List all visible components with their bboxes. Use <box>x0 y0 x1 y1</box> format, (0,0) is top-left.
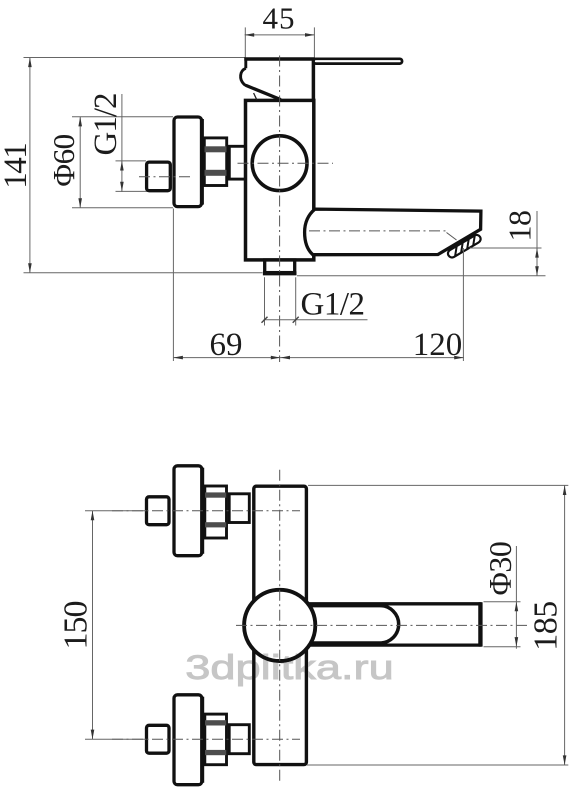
front view: top inlet stub <box>229 494 249 523</box>
front view: handle lever pill <box>280 606 399 643</box>
side view: horizontal center line through cartridge <box>238 162 334 164</box>
side view: dimension G1/2 bottom extension left <box>264 277 266 325</box>
side view: dimension 45 extension line right <box>313 27 315 58</box>
front view: vertical center line <box>279 470 281 782</box>
front view: dimension Phi30 extension bottom <box>484 646 521 648</box>
side view: spout center line <box>309 230 446 232</box>
side view: dimension line Phi60 <box>79 117 81 208</box>
side view: faucet body <box>246 100 314 260</box>
svg-text:G1/2: G1/2 <box>88 94 124 156</box>
side view: dimension 141 extension line bottom <box>24 272 263 274</box>
side view: dimension 141 extension line top <box>24 57 246 59</box>
side view: dimension line 141 <box>29 58 31 273</box>
side view: dimension G1/2 bottom shelf line <box>264 319 368 321</box>
front view: dimension line 185 <box>564 485 566 765</box>
side view: extension line for 120 right <box>462 248 464 361</box>
svg-text:Φ30: Φ30 <box>482 542 518 596</box>
side view: cartridge circle <box>252 136 307 191</box>
side view: handle cap left edge <box>244 58 247 69</box>
side view: dimension 45 extension line left <box>244 27 246 57</box>
side view: wall nipple center line <box>139 176 192 178</box>
svg-text:45: 45 <box>263 1 296 36</box>
front view: dimension 150 extension bottom <box>85 738 146 740</box>
front view: bottom connection center line <box>112 738 300 740</box>
side view: dimension line 18 <box>536 211 538 276</box>
svg-text:Φ60: Φ60 <box>46 134 81 186</box>
side view: handle joint tick <box>254 93 257 100</box>
side view: dimension G1/2 bottom extension right <box>295 277 297 325</box>
side view: dimension 18 extension line top <box>470 247 542 249</box>
side view: dimension Phi60 extension line bottom <box>72 207 173 209</box>
svg-text:141: 141 <box>0 144 34 189</box>
side view: dimension line G1/2 top <box>121 94 123 192</box>
front view: bottom wall nipple square <box>147 725 170 753</box>
front view: top connection center line <box>112 510 300 512</box>
side view: dimension line 45 <box>245 34 315 36</box>
svg-text:18: 18 <box>502 211 538 242</box>
front view: bottom inlet stub <box>229 725 249 754</box>
side view: vertical center line <box>279 56 281 363</box>
front view: handle base circle <box>244 590 315 661</box>
svg-text:185: 185 <box>528 601 565 651</box>
front view: dimension 150 extension top <box>85 510 146 512</box>
side view: extension line for 69 left <box>172 209 174 362</box>
side view: handle cap right edge <box>312 58 316 101</box>
side view: connector nut <box>204 138 226 186</box>
side view: bottom outlet nipple <box>265 260 295 273</box>
front view: horizontal center line through spout <box>236 624 528 626</box>
side view: dimension G1/2 top extension line upper <box>116 160 147 162</box>
side view: dimension G1/2 top extension line lower <box>116 190 150 192</box>
svg-text:120: 120 <box>413 327 463 363</box>
side view: handle underside diagonal <box>246 85 281 99</box>
side view: escutcheon flange <box>174 117 202 207</box>
front view: bottom connector nut <box>205 714 227 765</box>
side view: wall nipple square <box>147 162 171 191</box>
front view: top wall nipple square <box>147 497 170 525</box>
side view: handle lever bar <box>314 59 403 64</box>
front view: dimension Phi30 extension top <box>484 601 521 603</box>
front view: top connector nut <box>205 486 227 538</box>
side view: dimension line 69 and 120 <box>173 357 464 359</box>
front view: top escutcheon flange <box>174 466 202 556</box>
svg-text:G1/2: G1/2 <box>301 287 365 323</box>
side view: dimension 18 extension line bottom <box>297 275 546 277</box>
front view: spout tube <box>298 604 480 645</box>
side view: spout <box>305 209 481 255</box>
svg-text:150: 150 <box>58 602 95 650</box>
side view: handle cap left bulge <box>241 68 247 85</box>
front view: dimension line 150 <box>92 511 94 740</box>
side view: aerator hatched band <box>447 233 483 258</box>
side view: dimension Phi60 extension line top <box>72 116 173 118</box>
front view: dimension 185 extension bottom <box>307 764 568 766</box>
svg-text:69: 69 <box>210 327 243 363</box>
front view: dimension 185 extension top <box>308 484 568 486</box>
front view: body column <box>254 486 307 764</box>
svg-text:3dplitka.ru: 3dplitka.ru <box>185 648 393 687</box>
front view: bottom escutcheon flange <box>174 695 202 785</box>
side view: inlet stub <box>229 146 245 179</box>
front view: dimension line Phi30 <box>515 546 517 649</box>
side view: spout inner cut line <box>447 233 457 241</box>
side view: handle cap top <box>244 57 314 61</box>
